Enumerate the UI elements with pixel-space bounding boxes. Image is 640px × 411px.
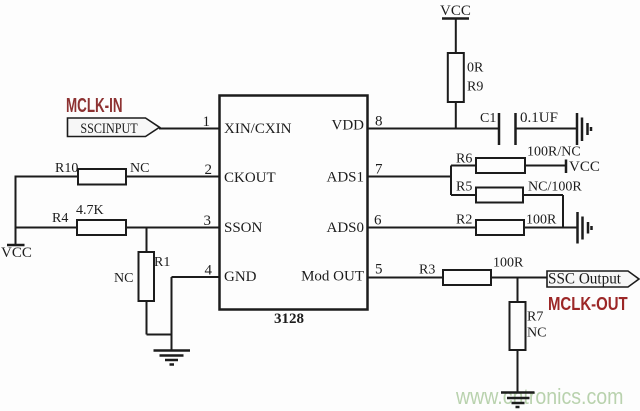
svg-text:3: 3	[204, 213, 212, 229]
svg-text:2: 2	[205, 162, 213, 178]
svg-text:4.7K: 4.7K	[76, 203, 104, 218]
svg-text:www.cntronics.com: www.cntronics.com	[455, 385, 623, 409]
svg-text:R10: R10	[55, 161, 78, 176]
svg-text:3128: 3128	[274, 311, 304, 327]
svg-text:R9: R9	[467, 80, 483, 95]
svg-text:NC: NC	[130, 161, 149, 176]
svg-text:C1: C1	[480, 111, 496, 126]
svg-text:GND: GND	[224, 269, 257, 285]
svg-text:R6: R6	[456, 152, 472, 167]
svg-text:CKOUT: CKOUT	[224, 170, 276, 186]
svg-text:100R: 100R	[526, 213, 557, 228]
svg-text:MCLK-OUT: MCLK-OUT	[548, 294, 628, 315]
svg-text:100R: 100R	[493, 256, 524, 271]
svg-text:NC: NC	[527, 326, 546, 341]
svg-text:8: 8	[375, 114, 383, 130]
svg-text:SSCINPUT: SSCINPUT	[80, 120, 138, 136]
svg-text:Mod OUT: Mod OUT	[301, 269, 364, 285]
svg-text:NC/100R: NC/100R	[528, 180, 582, 195]
svg-text:XIN/CXIN: XIN/CXIN	[224, 121, 292, 137]
svg-text:ADS1: ADS1	[326, 170, 364, 186]
svg-text:7: 7	[375, 162, 383, 178]
svg-text:100R/NC: 100R/NC	[527, 145, 581, 160]
svg-text:SSON: SSON	[224, 220, 263, 236]
svg-text:NC: NC	[114, 271, 133, 286]
svg-text:R4: R4	[52, 211, 68, 226]
svg-text:VCC: VCC	[440, 3, 471, 19]
svg-text:5: 5	[375, 262, 383, 278]
svg-text:VCC: VCC	[1, 245, 32, 261]
svg-text:4: 4	[205, 263, 213, 279]
svg-text:ADS0: ADS0	[326, 220, 364, 236]
svg-text:R5: R5	[456, 180, 472, 195]
svg-text:R3: R3	[419, 263, 435, 278]
svg-text:R1: R1	[154, 255, 170, 270]
svg-text:VDD: VDD	[332, 118, 365, 134]
svg-text:0.1UF: 0.1UF	[520, 110, 558, 126]
svg-text:R2: R2	[456, 213, 472, 228]
svg-text:0R: 0R	[467, 61, 484, 76]
svg-text:R7: R7	[527, 310, 543, 325]
svg-text:6: 6	[374, 213, 382, 229]
svg-text:VCC: VCC	[569, 159, 600, 175]
svg-text:1: 1	[203, 114, 211, 130]
svg-text:SSC Output: SSC Output	[548, 270, 622, 287]
svg-text:MCLK-IN: MCLK-IN	[66, 94, 123, 116]
